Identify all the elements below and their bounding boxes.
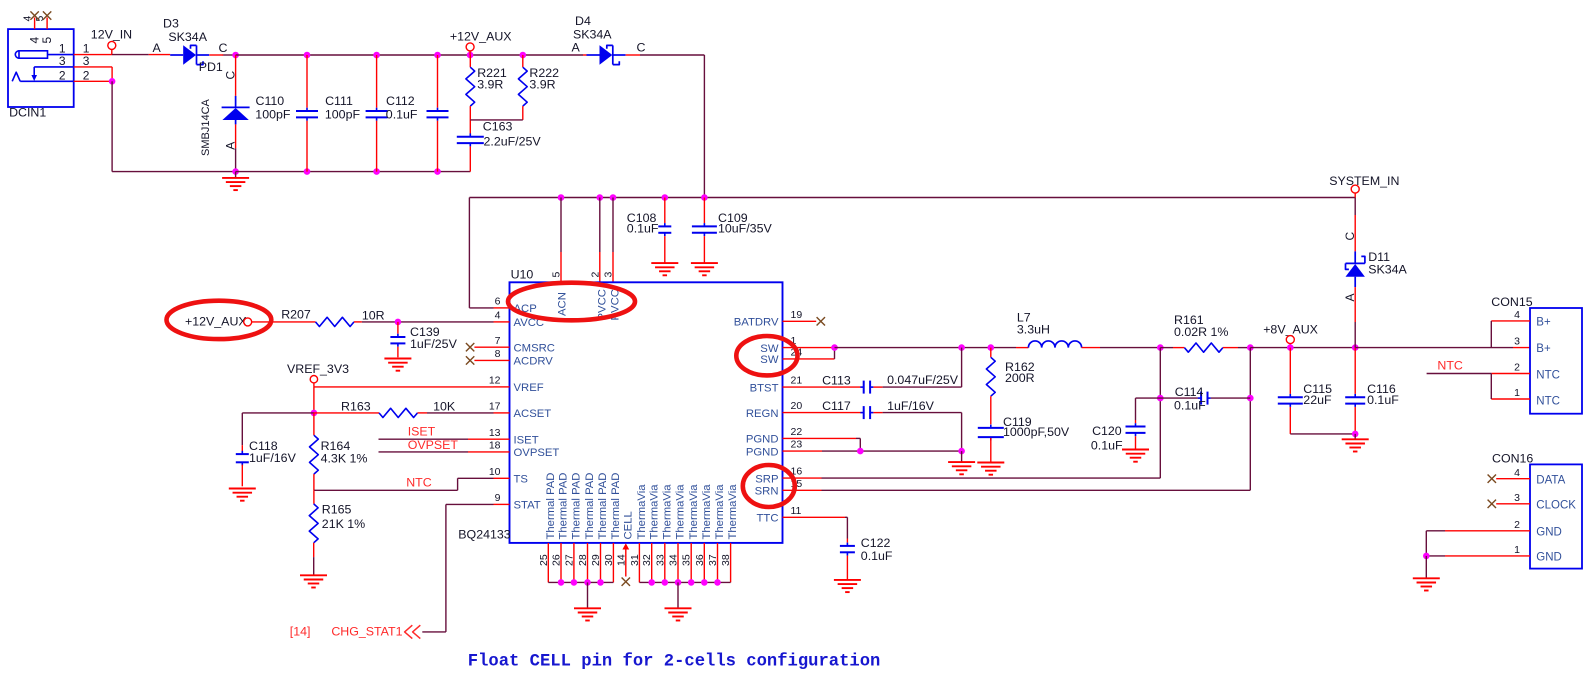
svg-text:21: 21 (791, 375, 803, 387)
capacitor C114 0.1uF (1136, 397, 1198, 399)
wire +12V_AUX drop to PVCC rail (703, 55, 705, 198)
no-connect X on CELL pin 14 (622, 578, 630, 586)
CON16 pin numbers (1514, 467, 1520, 556)
CELL pin 14 float arrow and wire (622, 543, 629, 576)
junction SW/BTST cap (958, 344, 965, 351)
svg-text:SRN: SRN (755, 486, 779, 498)
svg-text:BQ24133: BQ24133 (458, 528, 510, 542)
wire PVCC drop (pin2) (599, 198, 601, 253)
highlight ellipse around ACN/PVCC pins (508, 283, 635, 321)
capacitor C115 22uF (1289, 348, 1291, 394)
junctions thermal bus right (648, 579, 720, 586)
U10 top pin names ACN PVCC PVCC (rotated) (557, 289, 622, 320)
svg-text:+12V_AUX: +12V_AUX (450, 30, 512, 44)
svg-text:ACN: ACN (557, 292, 569, 316)
wire DCIN1 pin4 stub (34, 18, 36, 30)
junction 12V node at SMBJ column (232, 52, 239, 59)
ground thermal pads left (574, 607, 601, 609)
svg-text:A: A (572, 41, 581, 55)
svg-text:1uF/16V: 1uF/16V (249, 451, 297, 465)
wire CON16 pin2 GND (1445, 530, 1530, 532)
svg-text:SRP: SRP (755, 473, 778, 485)
svg-text:BTST: BTST (750, 382, 779, 394)
capacitor C139 1uF/25V (397, 322, 399, 334)
svg-text:NTC: NTC (1536, 369, 1560, 381)
svg-text:C: C (224, 71, 238, 80)
svg-text:NTC: NTC (1536, 396, 1560, 408)
ground symbol input rail (235, 172, 237, 178)
wire TTC pin11 to C122 (783, 516, 846, 518)
wire CON16 pin4 stub (1496, 478, 1530, 480)
svg-text:21K 1%: 21K 1% (322, 517, 365, 531)
U10 top pin numbers 5 2 3 (rotated) (551, 272, 615, 278)
U10 bottom pin names Thermal PAD (rotated) (545, 473, 622, 540)
ground ThermaVia bus (665, 607, 692, 609)
resistor R163 10K (314, 412, 379, 414)
svg-text:[14]: [14] (290, 624, 311, 638)
svg-text:ThermaVia: ThermaVia (714, 484, 726, 540)
wire CON16 ground drop (1425, 556, 1427, 578)
wire pin7 stub (474, 346, 509, 348)
svg-text:18: 18 (489, 440, 501, 452)
svg-text:SYSTEM_IN: SYSTEM_IN (1329, 174, 1399, 188)
svg-text:5: 5 (551, 272, 563, 278)
svg-text:4: 4 (1514, 467, 1520, 479)
highlight ellipse around SRP/SRN pins (743, 465, 795, 507)
wire NTC stub left (1427, 373, 1492, 375)
wire PGND pin22 jog (783, 437, 857, 439)
inductor L7 3.3uH (1028, 341, 1081, 348)
svg-text:C112: C112 (386, 94, 415, 108)
svg-text:22uF: 22uF (1303, 393, 1332, 407)
svg-text:8: 8 (495, 348, 501, 360)
wire R163 to ACSET pin17 (427, 412, 494, 414)
wire REGN pin20 to C117 (783, 412, 861, 414)
junctions thermal bus left (558, 579, 604, 586)
connector CON16 body (1530, 464, 1582, 568)
svg-text:10: 10 (489, 466, 501, 478)
svg-text:100pF: 100pF (325, 107, 361, 121)
svg-text:ISET: ISET (408, 425, 436, 439)
svg-text:ThermaVia: ThermaVia (701, 484, 713, 540)
U10 bottom pin names ThermaVia (rotated) (636, 484, 739, 540)
svg-text:C110: C110 (256, 94, 285, 108)
svg-text:13: 13 (489, 427, 501, 439)
capacitor C116 0.1uF (1354, 348, 1356, 394)
wire SW node to L7 (835, 347, 962, 349)
wire CON16 pin3 stub (1496, 503, 1530, 505)
wire D3 cathode to node (222, 54, 225, 56)
junction SW/R162 (988, 344, 995, 351)
svg-text:0.1uF: 0.1uF (386, 107, 418, 121)
svg-text:0.047uF/25V: 0.047uF/25V (887, 373, 959, 387)
svg-text:12: 12 (489, 375, 501, 387)
svg-text:0.1uF: 0.1uF (861, 549, 893, 563)
wire VREF_3V3 to pin12 VREF (313, 383, 315, 387)
capacitor C111 100pF (376, 55, 378, 108)
svg-text:200R: 200R (1005, 371, 1035, 385)
U10 bottom pin numbers (rotated) (538, 554, 732, 566)
svg-text:U10: U10 (511, 268, 534, 282)
wire ISET to pin13 (379, 438, 469, 440)
svg-text:CON16: CON16 (1492, 452, 1533, 466)
wire DCIN1 pin5 stub (46, 18, 48, 30)
svg-text:CELL: CELL (622, 511, 634, 539)
svg-text:TTC: TTC (757, 513, 779, 525)
no-connect X CON16 pin4 (1488, 475, 1496, 483)
svg-text:0.1uF: 0.1uF (1091, 439, 1123, 453)
svg-text:SW: SW (760, 343, 779, 355)
CON15 pin numbers (1514, 309, 1520, 399)
svg-text:3: 3 (59, 54, 66, 68)
wire PGND pin23 (783, 450, 823, 452)
svg-text:4.3K 1%: 4.3K 1% (321, 451, 368, 465)
svg-text:A: A (153, 41, 162, 55)
junction D11/C116 column (1352, 344, 1359, 351)
junction PGND / C117 return (958, 448, 965, 455)
svg-text:ACSET: ACSET (514, 408, 552, 420)
diode D11 SK34A (1354, 251, 1356, 263)
no-connect X on DCIN1 pin 5 (43, 11, 51, 19)
no-connect X CON16 pin3 (1488, 500, 1496, 508)
svg-text:SK34A: SK34A (168, 30, 207, 44)
svg-text:Thermal PAD: Thermal PAD (584, 473, 596, 540)
svg-text:SK34A: SK34A (573, 28, 612, 42)
svg-text:12V_IN: 12V_IN (91, 28, 132, 42)
svg-text:D4: D4 (575, 14, 591, 28)
wire PVCC rail (469, 197, 1355, 199)
ground under C109 (691, 262, 718, 264)
connector CON15 body (1530, 308, 1582, 414)
svg-text:GND: GND (1536, 527, 1562, 539)
capacitor C120 0.1uF (1135, 398, 1137, 420)
resistor R162 200R (990, 348, 992, 358)
svg-text:VREF_3V3: VREF_3V3 (287, 362, 349, 376)
svg-text:Thermal PAD: Thermal PAD (545, 473, 557, 540)
svg-text:2: 2 (1514, 519, 1520, 531)
svg-text:0.1uF: 0.1uF (627, 221, 659, 235)
wire SRP pin16 sense line (783, 477, 822, 479)
capacitor C117 1uF/16V (863, 406, 865, 419)
junction PGND pins (857, 448, 864, 455)
wire thermal bus right to ground (677, 582, 679, 608)
diode D4 SK34A (587, 54, 600, 56)
svg-text:C113: C113 (822, 374, 851, 388)
wire VREF_3V3 down to divider junction (313, 387, 315, 413)
junction C115/C116 ground node (1352, 431, 1359, 438)
wires U10 thermal pad pins 25-30 to bus (548, 543, 613, 583)
ground under C139 (384, 358, 411, 360)
U10 right pin numbers (791, 309, 803, 517)
svg-text:BATDRV: BATDRV (734, 317, 779, 329)
wire CON15 pin4 to B+ net (1491, 320, 1530, 322)
wire DCIN return down to ground rail (111, 81, 113, 171)
svg-text:3: 3 (603, 272, 615, 278)
capacitor C108 0.1uF (664, 198, 666, 224)
svg-text:ThermaVia: ThermaVia (727, 484, 739, 540)
svg-text:2: 2 (83, 68, 90, 82)
svg-text:OVPSET: OVPSET (408, 438, 459, 452)
svg-text:PGND: PGND (746, 446, 779, 458)
wire junction to C118 (242, 412, 314, 414)
wire SW pin24 jog (783, 358, 835, 360)
no-connect X pin8 ACDRV (466, 356, 474, 364)
svg-text:0.1uF: 0.1uF (1174, 398, 1206, 412)
junction SRN sense node (1247, 344, 1254, 351)
svg-text:B+: B+ (1536, 343, 1551, 355)
wire thermal bus left to ground (587, 582, 589, 608)
wire R207 to AVCC pin4 (362, 321, 398, 323)
op-amp U10 BQ24133 charger IC body (510, 282, 783, 543)
svg-text:6: 6 (495, 296, 501, 308)
svg-text:C: C (219, 41, 228, 55)
svg-text:+12V_AUX: +12V_AUX (185, 315, 247, 329)
CON16 pin names (1536, 475, 1576, 564)
junction DCIN pins 2-3 (109, 78, 116, 85)
svg-text:2: 2 (589, 272, 601, 278)
wire ACN drop (pin5) (560, 198, 562, 253)
svg-text:SMBJ14CA: SMBJ14CA (200, 98, 212, 156)
wire DCIN1 pin1 to D3 (12V_IN) (74, 54, 112, 56)
wire rail left drop to ACP (468, 198, 470, 308)
svg-text:1uF/16V: 1uF/16V (887, 399, 935, 413)
svg-text:R165: R165 (322, 502, 352, 516)
highlight ellipse around +12V_AUX (167, 301, 272, 339)
svg-text:ACDRV: ACDRV (514, 356, 554, 368)
junction C114 right on SRN line (1247, 395, 1254, 402)
svg-text:3: 3 (1514, 336, 1520, 348)
svg-text:3: 3 (1514, 492, 1520, 504)
U10 left pin numbers (489, 296, 501, 505)
junction dots on PVCC rail (558, 194, 565, 201)
svg-text:D3: D3 (163, 17, 179, 31)
U10 left pin names (514, 303, 560, 512)
wire DCIN1 pin2 (74, 80, 112, 82)
svg-text:CLOCK: CLOCK (1536, 500, 1576, 512)
wire CON15 pin2 NTC (1491, 373, 1530, 375)
junction C114 left on SRP line (1157, 395, 1164, 402)
svg-text:3: 3 (83, 54, 90, 68)
ground under C115/C116 (1354, 434, 1356, 439)
junction SRP sense node (1157, 344, 1164, 351)
resistor R165 21K 1% (313, 490, 315, 504)
svg-text:1uF/25V: 1uF/25V (410, 337, 458, 351)
svg-text:ThermaVia: ThermaVia (688, 484, 700, 540)
svg-text:SW: SW (760, 354, 779, 366)
svg-text:Float CELL pin for 2-cells con: Float CELL pin for 2-cells configuration (468, 653, 881, 672)
svg-text:VREF: VREF (514, 382, 544, 394)
ground CON16 (1413, 577, 1440, 579)
wire SYSTEM_IN drop to D11 (1354, 198, 1356, 216)
wire SRN pin15 sense line (783, 489, 822, 491)
svg-text:3.9R: 3.9R (529, 77, 555, 91)
wire CON16 pin1 GND (1445, 555, 1530, 557)
svg-text:C117: C117 (822, 399, 851, 413)
svg-text:REGN: REGN (746, 408, 779, 420)
svg-text:10K: 10K (433, 400, 456, 414)
svg-text:17: 17 (489, 401, 501, 413)
resistor R164 4.3K 1% (313, 413, 315, 435)
svg-text:Thermal PAD: Thermal PAD (610, 473, 622, 540)
wire SRN node to system line (1250, 347, 1355, 349)
svg-text:0.1uF: 0.1uF (1367, 393, 1399, 407)
wire STAT pin9 to CHG_STAT1 (494, 503, 510, 505)
svg-text:20: 20 (791, 400, 803, 412)
svg-text:C114: C114 (1175, 385, 1204, 399)
svg-text:B+: B+ (1536, 317, 1551, 329)
wire system line to CON15 pin3 (1355, 347, 1513, 349)
svg-text:C111: C111 (325, 94, 353, 108)
capacitor C122 0.1uF (846, 539, 848, 543)
svg-text:C: C (637, 41, 646, 55)
junction CON16 ground (1423, 553, 1430, 560)
junction +8V_AUX (1287, 344, 1294, 351)
wire NTC junction to TS pin10 (314, 489, 458, 491)
svg-text:10uF/35V: 10uF/35V (718, 221, 772, 235)
svg-text:NTC: NTC (1437, 359, 1463, 373)
svg-text:7: 7 (495, 335, 501, 347)
resistor R207 10R (252, 321, 316, 323)
svg-text:R207: R207 (281, 307, 311, 321)
svg-text:4: 4 (495, 310, 501, 322)
wire pin8 stub (474, 359, 509, 361)
svg-text:C120: C120 (1092, 424, 1122, 438)
wire L7 to R161 (1082, 347, 1101, 349)
svg-text:9: 9 (495, 492, 501, 504)
TVS diode PD1 SMBJ14CA (235, 55, 237, 96)
resistor R221 3.9R (469, 55, 471, 67)
no-connect X pin7 CMSRC (466, 343, 474, 351)
capacitor C163 2.2uF/25V (457, 136, 484, 138)
wire 12V rail to D4 (583, 54, 587, 56)
ground under C118 (229, 488, 256, 490)
svg-text:CHG_STAT1: CHG_STAT1 (331, 624, 402, 638)
svg-text:11: 11 (791, 505, 802, 517)
capacitor C118 1uF/16V (241, 445, 243, 452)
diode D3 SK34A (170, 54, 183, 56)
wire D11 anode to +8V line (1354, 287, 1356, 322)
CON15 pin names (1536, 317, 1560, 408)
svg-text:1: 1 (1514, 544, 1520, 556)
svg-text:2: 2 (1514, 361, 1520, 373)
wire BTST pin21 to C113 (783, 386, 861, 388)
wire PGND to ground (961, 451, 963, 462)
svg-text:STAT: STAT (514, 500, 541, 512)
svg-text:Thermal PAD: Thermal PAD (558, 473, 570, 540)
ground under C120 (1122, 449, 1149, 451)
svg-text:2.2uF/25V: 2.2uF/25V (484, 134, 542, 148)
svg-text:ThermaVia: ThermaVia (636, 484, 648, 540)
net port CHG_STAT1 chevron arrow (405, 625, 421, 638)
wire DCIN1 pin3 jog down (74, 66, 112, 68)
resistor R222 3.9R (522, 55, 524, 67)
svg-text:CMSRC: CMSRC (514, 343, 555, 355)
no-connect X on DCIN1 pin 4 (30, 11, 38, 19)
highlight ellipse around SW pins (736, 336, 797, 375)
svg-text:R163: R163 (341, 400, 371, 414)
junction SW pins (831, 344, 838, 351)
svg-text:ISET: ISET (514, 435, 539, 447)
svg-text:5: 5 (40, 37, 54, 44)
capacitor C113 0.047uF/25V (863, 381, 865, 394)
svg-text:1: 1 (1514, 387, 1520, 399)
capacitor C112 0.1uF (437, 55, 439, 108)
svg-text:2: 2 (59, 68, 66, 82)
svg-text:23: 23 (791, 439, 803, 451)
svg-text:+8V_AUX: +8V_AUX (1263, 323, 1318, 337)
wire R222 bottom jog to C163 (470, 119, 523, 121)
capacitor C109 10uF/35V (703, 198, 705, 224)
ground under C108 (651, 262, 678, 264)
connector DCIN1 (8, 29, 74, 107)
svg-text:4: 4 (1514, 309, 1520, 321)
junction dots on 12V rail (304, 52, 311, 59)
svg-text:OVPSET: OVPSET (514, 447, 560, 459)
no-connect X pin19 BATDRV (817, 317, 825, 325)
wire C117 to PGND (873, 412, 882, 414)
wire C113 to SW node (873, 386, 882, 388)
svg-text:0.02R 1%: 0.02R 1% (1174, 325, 1228, 339)
capacitor C119 1000pF,50V (978, 427, 1004, 429)
svg-text:ThermaVia: ThermaVia (661, 484, 673, 540)
ground under C122 (834, 579, 861, 581)
wire BATDRV pin19 stub (783, 320, 817, 322)
U10 right pin names (734, 317, 779, 525)
wire 12V bulk rail (236, 54, 583, 56)
ground under C119 (977, 462, 1004, 464)
junction VREF divider (311, 410, 318, 417)
wire PVCC drop (pin3) (612, 198, 614, 253)
svg-text:PGND: PGND (746, 434, 779, 446)
svg-text:100pF: 100pF (255, 107, 291, 121)
svg-text:DATA: DATA (1536, 475, 1565, 487)
svg-text:ThermaVia: ThermaVia (648, 484, 660, 540)
wire SW pin1 (783, 347, 835, 349)
svg-text:GND: GND (1536, 552, 1562, 564)
svg-text:Thermal PAD: Thermal PAD (597, 473, 609, 540)
wire CON15 pin1 NTC (1491, 398, 1530, 400)
svg-text:A: A (224, 142, 238, 150)
svg-text:1000pF,50V: 1000pF,50V (1003, 425, 1070, 439)
svg-text:22: 22 (791, 426, 803, 438)
resistor R161 0.02R 1% (1160, 347, 1173, 349)
ground PGND (948, 461, 975, 463)
svg-text:CON15: CON15 (1491, 295, 1532, 309)
svg-text:DCIN1: DCIN1 (9, 106, 46, 120)
junction SMBJ to ground rail (232, 168, 239, 175)
junction AVCC / C139 (395, 319, 402, 326)
svg-text:10R: 10R (362, 309, 385, 323)
wire OVPSET to pin18 (379, 451, 469, 453)
ground rail under input caps (236, 171, 471, 173)
svg-text:NTC: NTC (406, 476, 432, 490)
svg-text:PD1: PD1 (199, 60, 223, 74)
svg-text:3.3uH: 3.3uH (1017, 322, 1050, 336)
svg-text:ThermaVia: ThermaVia (675, 484, 687, 540)
svg-text:19: 19 (791, 309, 803, 321)
wires U10 ThermaVia pins 31-38 to bus (639, 543, 730, 583)
svg-text:SK34A: SK34A (1368, 262, 1407, 276)
ground under R165 (300, 574, 327, 576)
wire D4 cathode to +12V_AUX node (626, 54, 640, 56)
capacitor C110 100pF (306, 55, 308, 108)
svg-text:3.9R: 3.9R (477, 77, 503, 91)
svg-text:C163: C163 (483, 120, 513, 134)
svg-text:Thermal PAD: Thermal PAD (571, 473, 583, 540)
svg-text:C: C (1343, 232, 1357, 241)
svg-text:TS: TS (514, 474, 529, 486)
